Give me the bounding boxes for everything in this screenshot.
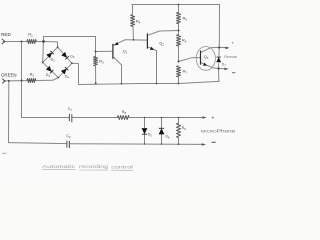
resistor R8 bbox=[117, 116, 129, 120]
GREEN input terminal bbox=[2, 79, 5, 84]
wire emitter junction to bias line bbox=[218, 69, 220, 82]
svg-text:+: + bbox=[231, 40, 234, 45]
diode D7 bbox=[216, 57, 221, 62]
transistor Q1 emitter arrow (PNP) bbox=[114, 42, 119, 45]
wire top supply rail bbox=[132, 4, 220, 6]
caption Automatic recording control bbox=[42, 164, 133, 170]
svg-text:GREEN: GREEN bbox=[1, 72, 17, 77]
capacitor C2 bbox=[66, 141, 68, 147]
svg-text:+: + bbox=[211, 115, 214, 121]
stray mark bbox=[2, 152, 6, 154]
svg-text:recording: recording bbox=[79, 164, 109, 169]
wire Q2 emitter bbox=[148, 47, 157, 84]
wire D5 leads bbox=[144, 118, 146, 128]
wire bridge edges bbox=[43, 47, 58, 62]
wire Q1 base bbox=[96, 50, 113, 52]
wire bottom rail bbox=[9, 143, 67, 144]
wire RED node to bridge left bbox=[42, 42, 45, 63]
wire RED node to bridge top bbox=[44, 42, 58, 48]
label remote minus bbox=[232, 72, 235, 74]
mic + arrow bbox=[202, 116, 206, 119]
RED input terminal bbox=[2, 39, 5, 44]
wire Q3 base bbox=[179, 58, 201, 62]
svg-text:Automatic: Automatic bbox=[42, 164, 75, 169]
svg-text:MICROPhone: MICROPhone bbox=[201, 129, 236, 134]
resistor R6 bbox=[177, 35, 181, 46]
wire remote - stub bbox=[219, 68, 227, 70]
resistor R5 bbox=[177, 12, 181, 23]
wire R3 leads bbox=[95, 52, 97, 57]
transistor Q3 bar bbox=[200, 51, 202, 64]
resistor R7 bbox=[177, 66, 181, 77]
wire Q2 collector bbox=[148, 31, 179, 36]
wire bias line bbox=[79, 81, 220, 84]
diode D5 bbox=[142, 128, 148, 134]
resistor R3 bbox=[94, 57, 98, 66]
resistor R1 bbox=[27, 40, 36, 44]
transistor Q3 emitter arrow (NPN) bbox=[203, 63, 207, 66]
wire coupling branch vertical bbox=[21, 42, 23, 118]
capacitor C1 bbox=[68, 114, 70, 120]
mic - arrow bbox=[202, 143, 206, 146]
wire D6 leads bbox=[161, 118, 163, 129]
transistor Q3 envelope bbox=[196, 47, 215, 71]
diode D4 bbox=[61, 69, 67, 75]
wire R9 leads bbox=[178, 118, 180, 124]
diode D1 bbox=[46, 53, 52, 59]
svg-text:control: control bbox=[111, 164, 133, 169]
label mic minus bbox=[212, 141, 216, 143]
wire Q3 emitter bbox=[201, 63, 219, 69]
wire GREEN to bottom rail bbox=[8, 81, 10, 143]
transistor Q2 emitter arrow (NPN) bbox=[150, 47, 154, 50]
svg-text:Remote: Remote bbox=[224, 55, 237, 59]
wire C1 line bbox=[22, 117, 70, 119]
resistor R4 bbox=[131, 15, 135, 27]
diode D2 bbox=[61, 52, 67, 58]
diode D3 bbox=[46, 66, 52, 72]
wire remote + stub bbox=[219, 47, 227, 49]
svg-text:RED: RED bbox=[1, 32, 11, 37]
wire D7 leads bbox=[218, 48, 220, 57]
wire RED input line bbox=[3, 41, 27, 43]
wire bridge right to bias line bbox=[72, 63, 79, 84]
remote + arrow bbox=[225, 47, 229, 50]
wire right vertical bbox=[218, 5, 220, 48]
diode D6 bbox=[159, 128, 165, 134]
wire Q3 collector bbox=[201, 48, 219, 53]
wire Q1 collector bbox=[113, 57, 121, 84]
wire divider chain bbox=[178, 5, 180, 13]
transistor Q2 bar bbox=[146, 34, 148, 48]
wire RED node to top loop bbox=[44, 37, 96, 52]
remote - arrow bbox=[224, 68, 228, 71]
wire GREEN input line bbox=[3, 80, 27, 82]
wire Q1 emitter to Q2 base bbox=[113, 40, 147, 46]
transistor Q1 bar bbox=[112, 44, 114, 58]
wire R4 leads bbox=[132, 5, 134, 15]
resistor R9 bbox=[177, 123, 181, 137]
resistor R2 bbox=[27, 79, 36, 83]
